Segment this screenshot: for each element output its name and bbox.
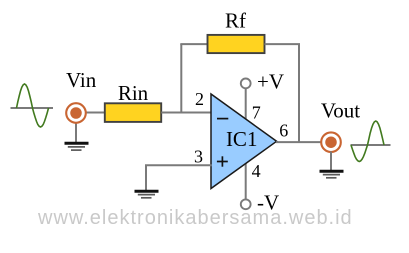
svg-text:www.elektronikabersama.web.id: www.elektronikabersama.web.id (37, 207, 353, 229)
svg-text:6: 6 (279, 121, 288, 141)
output signal axis line (351, 144, 391, 146)
feedback right vertical wire (298, 44, 300, 142)
wire Vout terminal down to ground (330, 152, 332, 172)
svg-text:7: 7 (252, 102, 261, 122)
wire pin 3 to ground (146, 165, 212, 191)
op-amp plus sign (217, 156, 228, 166)
resistor Rf (208, 35, 265, 53)
ground (pin 3) (135, 191, 159, 198)
wire Rin to op-amp inverting input (pin 2) (161, 112, 211, 114)
wire Rf right (265, 43, 301, 45)
wire to Rf left (180, 43, 208, 45)
svg-text:+V: +V (257, 70, 284, 94)
input signal source axis line (11, 107, 54, 109)
ground (output) (320, 171, 344, 178)
wire pin 6 output to Vout terminal (276, 141, 322, 143)
wire pin 7 to +V (245, 88, 247, 120)
svg-text:Rf: Rf (225, 9, 246, 33)
op-amp IC1 triangle (211, 94, 277, 189)
wire pin 4 to -V (245, 163, 247, 200)
feedback left vertical wire (180, 44, 182, 113)
op-amp minus sign (217, 118, 228, 120)
terminal +V (241, 79, 251, 89)
svg-text:Rin: Rin (118, 81, 149, 105)
svg-text:IC1: IC1 (226, 127, 258, 151)
ground (input) (65, 143, 89, 150)
svg-text:Vin: Vin (66, 68, 97, 92)
svg-text:3: 3 (194, 146, 203, 166)
terminal Vin (66, 103, 86, 123)
terminal -V (241, 199, 251, 209)
resistor Rin (105, 103, 161, 122)
terminal Vout (321, 132, 341, 152)
wire Vin terminal down to ground (75, 122, 77, 144)
svg-text:2: 2 (195, 89, 204, 109)
output sine wave (inverted) (351, 121, 384, 162)
svg-text:4: 4 (252, 161, 261, 181)
wire Vin terminal to Rin (85, 112, 106, 114)
input sine wave (17, 84, 49, 127)
svg-text:Vout: Vout (321, 99, 360, 123)
